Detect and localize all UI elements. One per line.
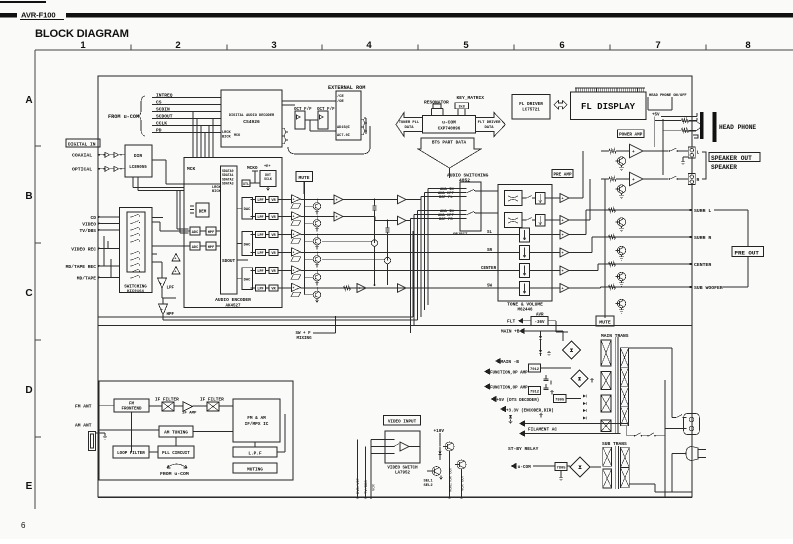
wire SW — [301, 287, 499, 289]
svg-text:KIC9164: KIC9164 — [127, 290, 144, 294]
svg-text:FILAMENT AC: FILAMENT AC — [528, 428, 557, 433]
op-amp post-dac 4 — [292, 248, 301, 256]
svg-text:SCDIN: SCDIN — [156, 107, 170, 113]
mute transistor 3 — [305, 240, 314, 242]
L.P.F block — [233, 447, 277, 457]
svg-text:SPEAKER OUT: SPEAKER OUT — [711, 155, 752, 162]
wire CENTER — [301, 270, 499, 272]
svg-text:+E+: +E+ — [264, 165, 270, 169]
svg-text:MUTING: MUTING — [247, 468, 263, 473]
terminal SUB WOOFER — [601, 286, 693, 288]
label +5V DTS — [491, 396, 497, 402]
svg-text:SCLK: SCLK — [264, 177, 272, 181]
svg-text:MONITOR OUT: MONITOR OUT — [450, 466, 454, 492]
tuner section box — [99, 381, 293, 480]
wire analog feed 1 — [176, 191, 178, 230]
wire lpf right — [277, 451, 285, 453]
svg-text:DIGITAL IN: DIGITAL IN — [68, 141, 96, 147]
svg-text:LOOP FILTER: LOOP FILTER — [117, 452, 145, 456]
switch+wire tone1 to vol — [522, 197, 526, 199]
main transformer secondary — [621, 348, 629, 368]
wire AC with double switch — [627, 435, 634, 437]
svg-text:+: + — [293, 214, 295, 218]
terminal CENTER — [598, 263, 692, 265]
svg-text:AVR-F100: AVR-F100 — [21, 11, 56, 20]
wire sw+f — [313, 332, 336, 334]
driver transistor terminal row 2 — [617, 272, 625, 280]
svg-text:SURR L: SURR L — [694, 208, 711, 214]
TONE & VOLUME block — [498, 185, 552, 302]
switch contact — [130, 216, 131, 217]
wire signal INTREQ — [152, 97, 221, 99]
svg-text:+: + — [562, 220, 564, 224]
svg-text:SW: SW — [487, 285, 493, 289]
svg-text:+5V (DTS DECODER): +5V (DTS DECODER) — [497, 398, 540, 403]
wire mix horizontal — [322, 240, 371, 242]
svg-text:+: + — [174, 258, 176, 262]
bridge rectifier 2 — [571, 370, 588, 387]
svg-text:TV/DBS: TV/DBS — [79, 228, 96, 234]
wire to LPF tri — [152, 261, 162, 263]
svg-text:CENTER: CENTER — [694, 262, 711, 268]
DIGITAL IN label — [66, 139, 100, 147]
DEM block — [196, 203, 209, 217]
svg-text:MAIN -B: MAIN -B — [501, 360, 520, 365]
svg-text:OPTICAL: OPTICAL — [72, 167, 92, 173]
filter symbol 5 — [291, 275, 301, 280]
vol boxes col — [520, 228, 530, 242]
svg-text:MUTE: MUTE — [599, 320, 611, 326]
wire headphone feed 2 — [663, 129, 681, 131]
regulator 7805 a — [554, 395, 567, 403]
svg-text:AM TUNING: AM TUNING — [164, 431, 188, 436]
svg-text:+: + — [293, 197, 295, 201]
wire amp to terminal SURR L — [569, 234, 586, 236]
wires DIR to encoder — [152, 159, 166, 161]
svg-text:VIDEO SWITCH: VIDEO SWITCH — [387, 467, 418, 471]
svg-text:+: + — [562, 234, 564, 238]
mute transistor 4 — [305, 258, 314, 260]
svg-text:u-COM: u-COM — [518, 465, 532, 470]
wire amp feeds vertical — [654, 121, 656, 148]
arrow FLT DRIVER DATA — [475, 113, 505, 137]
wire video left — [370, 440, 372, 498]
svg-text:7805: 7805 — [555, 399, 565, 403]
junction circle 2 — [384, 257, 390, 263]
ROM bus squiggle right — [361, 119, 367, 135]
wire am ant to tuning — [99, 429, 160, 431]
diode to sel — [439, 452, 442, 455]
svg-text:CENTER: CENTER — [481, 267, 497, 271]
svg-text:DAC: DAC — [244, 279, 252, 283]
svg-text:SDOUT: SDOUT — [222, 259, 236, 264]
svg-text:7805: 7805 — [556, 467, 566, 471]
svg-text:TONE & VOLUME: TONE & VOLUME — [507, 302, 543, 308]
svg-text:INTREQ: INTREQ — [156, 93, 173, 99]
svg-text:+: + — [293, 232, 295, 236]
svg-text:+: + — [562, 198, 564, 202]
LOOP FILTER — [113, 446, 149, 458]
svg-text:AK4527: AK4527 — [225, 305, 241, 309]
svg-text:1: 1 — [80, 40, 86, 51]
wire FL to power amp L — [569, 197, 583, 199]
wires input bypass left — [107, 241, 109, 249]
svg-text:FL DISPLAY: FL DISPLAY — [581, 102, 636, 112]
svg-text:HEAD PHONE ON/OFF: HEAD PHONE ON/OFF — [649, 93, 687, 98]
svg-text:6: 6 — [559, 40, 564, 51]
svg-text:VIDEO REC: VIDEO REC — [71, 246, 96, 252]
svg-text:FUNCTION,OP AMP: FUNCTION,OP AMP — [490, 387, 528, 391]
DAC 3 — [242, 268, 253, 290]
3.3v diode — [509, 415, 512, 418]
svg-text:PRE AMP: PRE AMP — [553, 173, 571, 178]
svg-text:SR: SR — [487, 249, 493, 253]
svg-text:+: + — [562, 252, 564, 256]
filter symbol 4 — [291, 257, 301, 262]
headphone jack bar 1 — [700, 112, 703, 139]
cap pair — [544, 375, 552, 385]
grid tick — [35, 339, 41, 341]
svg-text:TUNER PLL: TUNER PLL — [399, 121, 420, 125]
wire 4052 feed y210.5 — [418, 210, 467, 212]
svg-text:VIDEO INPUT: VIDEO INPUT — [388, 420, 417, 425]
svg-text:MAIN +B: MAIN +B — [501, 330, 520, 335]
svg-text:FLT: FLT — [507, 319, 516, 325]
grid tick — [417, 45, 419, 51]
SPEAKER OUT label — [709, 153, 760, 162]
FM FRONTEND — [114, 399, 149, 412]
wire encoder top row to 4052 top — [413, 230, 452, 232]
svg-text:FROM u-COM: FROM u-COM — [160, 471, 189, 477]
ADC 1 — [190, 227, 200, 235]
svg-text:M62446: M62446 — [517, 309, 533, 313]
wire 4052 feed y196.5 — [421, 196, 466, 198]
IF FILTER 1 — [162, 402, 174, 411]
terminal SURR L — [586, 209, 692, 211]
svg-text:DIR: DIR — [134, 153, 143, 159]
bridge rectifier main — [563, 341, 581, 359]
wires to power amps — [654, 117, 656, 146]
wire signal PD — [152, 132, 221, 134]
pre out bracket — [713, 210, 748, 287]
bias transistor R — [617, 185, 625, 193]
wire 4052 feed y188.5 — [428, 188, 466, 190]
amp SW a — [357, 284, 366, 293]
svg-text:VCR OUT: VCR OUT — [462, 474, 466, 491]
4052 switches — [467, 190, 474, 193]
video buffer transistor 2 — [457, 460, 466, 469]
out op-amp 5 — [560, 266, 569, 275]
svg-text:BICK: BICK — [212, 190, 221, 194]
regulator 7805 b — [555, 463, 567, 471]
main transformer primary windings — [601, 340, 611, 366]
IF AMP — [183, 402, 193, 412]
grid tick — [705, 45, 707, 51]
mute transistor 1 — [305, 205, 314, 207]
svg-text:DATA: DATA — [484, 126, 494, 130]
svg-text:/OE: /OE — [337, 99, 345, 104]
wires switching to encoder rows — [152, 217, 163, 219]
svg-text:E: E — [26, 481, 33, 492]
jack contacts — [682, 121, 700, 138]
svg-text:3: 3 — [271, 40, 276, 51]
driver transistor terminal row 0 — [617, 218, 625, 226]
sub trans core — [615, 446, 617, 489]
svg-text:CXP740096: CXP740096 — [438, 128, 461, 132]
svg-text:6: 6 — [21, 521, 26, 530]
bridge rectifier sub — [570, 457, 590, 477]
svg-text:SUB TRANS: SUB TRANS — [602, 441, 627, 447]
wire analog feed 2 — [179, 191, 181, 234]
svg-text:+: + — [562, 288, 564, 292]
svg-text:+: + — [562, 270, 564, 274]
wire headphone on/off — [647, 97, 649, 110]
svg-text:ST-BY RELAY: ST-BY RELAY — [508, 446, 539, 452]
svg-text:ADC: ADC — [192, 246, 199, 250]
diode quad — [583, 394, 586, 397]
svg-text:+: + — [632, 178, 635, 183]
header underline — [20, 19, 64, 21]
amp SW b — [398, 284, 407, 293]
svg-text:LC89055: LC89055 — [129, 166, 147, 170]
bottom power wires — [629, 483, 655, 485]
svg-text:FM ANT: FM ANT — [75, 404, 92, 410]
svg-text:DAC: DAC — [244, 208, 252, 212]
svg-text:FRONTEND: FRONTEND — [121, 408, 142, 412]
speaker switch R — [669, 178, 671, 180]
svg-text:/CE: /CE — [337, 94, 345, 99]
svg-text:FM: FM — [129, 403, 135, 407]
svg-text:DAC: DAC — [244, 243, 252, 247]
svg-text:LPF: LPF — [257, 234, 263, 238]
bottom terminals — [448, 496, 450, 498]
svg-text:+5V: +5V — [652, 114, 660, 118]
svg-text:MIXING: MIXING — [297, 337, 313, 341]
svg-text:LA7952: LA7952 — [395, 472, 411, 476]
wire amp to terminal SURR R — [569, 252, 592, 254]
vertical resistor node 2 — [386, 225, 390, 235]
resistor W R — [609, 177, 616, 181]
svg-text:PRE OUT: PRE OUT — [735, 250, 760, 257]
svg-text:LRCK: LRCK — [222, 131, 231, 135]
header top rule fragment — [0, 1, 46, 3]
7805b cap+gnd — [560, 471, 562, 477]
svg-text:IF/MPX IC: IF/MPX IC — [245, 422, 269, 427]
ground near connector — [681, 160, 685, 165]
wire lpf-hpf chain — [161, 288, 163, 298]
svg-text:FUNCTION,OP AMP: FUNCTION,OP AMP — [490, 372, 528, 376]
svg-text:RESONATOR: RESONATOR — [424, 100, 449, 106]
out op-amp 2 — [560, 216, 569, 225]
PRE OUT label — [732, 247, 764, 257]
long wire bus 2 — [98, 325, 692, 327]
wire bus drops to MCK — [192, 112, 194, 158]
svg-text:7912: 7912 — [530, 391, 540, 395]
wire secondary bottom — [626, 426, 628, 436]
main out bus vertical — [604, 180, 606, 319]
op-amp post-dac 1 — [292, 195, 301, 203]
wires to 4052 — [406, 199, 421, 201]
switch contact — [130, 277, 131, 278]
svg-text:MD/TAPE REC: MD/TAPE REC — [66, 264, 97, 270]
LPF/VR row 6 — [256, 285, 266, 291]
wire right vertical B — [664, 380, 666, 497]
amp FR a — [334, 212, 343, 221]
svg-text:VCR: VCR — [373, 483, 377, 491]
svg-text:SURR R: SURR R — [694, 235, 711, 241]
svg-text:FROM u-COM: FROM u-COM — [108, 114, 139, 120]
PLL CIRCUIT — [158, 446, 194, 458]
bottom bus wire — [98, 497, 692, 499]
svg-text:AM ANT: AM ANT — [75, 423, 92, 429]
amp FL a — [334, 195, 343, 204]
wires to ADCs — [184, 230, 190, 232]
video sw internals — [400, 442, 409, 451]
wire SL — [301, 234, 499, 236]
junction circle 1 — [371, 240, 377, 246]
svg-text:LPF: LPF — [167, 287, 175, 291]
grid tick — [35, 145, 41, 147]
svg-text:SWITCHING: SWITCHING — [124, 286, 147, 290]
label FUNCTION OP AMP b — [484, 383, 490, 389]
svg-text:R: R — [697, 177, 700, 183]
wire headphone feed 1 — [655, 120, 681, 122]
switch contact — [130, 259, 131, 260]
wire signal CS — [152, 104, 221, 106]
mute control bus — [304, 182, 306, 295]
svg-text:HEAD PHONE: HEAD PHONE — [719, 124, 756, 131]
regulator 7912 b — [529, 387, 541, 395]
mute transistor 5 — [305, 276, 314, 278]
grid tick — [35, 242, 41, 244]
grid tick — [35, 436, 41, 438]
mute transistor 6 — [305, 294, 314, 296]
video buffer transistor 1 — [445, 442, 454, 451]
resistor W terminal row 1 — [609, 235, 616, 239]
wire frontend down — [131, 412, 133, 452]
wires into 4052 — [452, 188, 466, 190]
ADC 2 — [190, 242, 200, 250]
svg-text:KEY_MATRIX: KEY_MATRIX — [457, 95, 485, 101]
label FILAMENT AC — [519, 420, 525, 426]
video bottom verticals — [357, 440, 359, 498]
svg-text:DATA: DATA — [404, 126, 414, 130]
svg-text:+: + — [359, 288, 361, 292]
op-amp tri 1 — [172, 254, 180, 262]
LPF/VR row 5 — [256, 268, 266, 274]
svg-text:PD: PD — [156, 128, 162, 134]
mute transistor 2 — [305, 222, 314, 224]
out op-amp 4 — [560, 248, 569, 257]
svg-text:+: + — [293, 250, 295, 254]
sel transistor — [432, 467, 441, 476]
wire amp to terminal CENTER — [569, 270, 598, 272]
grid tick — [513, 45, 515, 51]
switch contact — [130, 271, 131, 272]
grid tick — [609, 45, 611, 51]
svg-text:+3.3V (ENCODER,DIR): +3.3V (ENCODER,DIR) — [506, 409, 554, 414]
switch contact — [130, 235, 131, 236]
svg-text:BTS PART DATA: BTS PART DATA — [432, 141, 467, 146]
wire flt down — [548, 320, 556, 322]
wire SDOUT — [237, 259, 248, 261]
svg-text:C: C — [25, 288, 32, 299]
wires col vol outs — [498, 234, 520, 236]
AM antenna loop — [89, 432, 96, 451]
video in wires — [371, 439, 394, 441]
sub transformer secondary — [621, 447, 630, 467]
svg-text:MD/TAPE: MD/TAPE — [77, 275, 97, 281]
svg-text:CD: CD — [90, 215, 96, 221]
speaker switch L — [669, 150, 671, 152]
sub transformer primary — [603, 447, 612, 466]
FL DRIVER LC75721 — [512, 95, 550, 120]
wire FR to power amp R — [569, 219, 590, 221]
label FUNCTION OP AMP a — [484, 368, 490, 374]
EXTERNAL ROM block — [336, 91, 361, 140]
wire bus vertical right — [691, 326, 693, 498]
DAC 1 — [242, 197, 253, 219]
wire 4052 feed y218.5 — [411, 218, 467, 220]
svg-text:SL: SL — [487, 231, 493, 235]
op-amp post-dac 5 — [292, 266, 301, 274]
out op-amp 1 — [560, 194, 569, 203]
regulator 7912 a — [529, 364, 541, 372]
tone box 2 — [505, 213, 523, 228]
svg-text:L: L — [697, 150, 700, 156]
bias transistor L — [617, 157, 625, 165]
svg-text:HPF: HPF — [167, 313, 175, 317]
vertical resistor node 1 — [373, 203, 377, 213]
wire plug to bus — [672, 453, 686, 455]
svg-text:PLL CIRCUIT: PLL CIRCUIT — [162, 452, 190, 456]
svg-text:-36V: -36V — [534, 321, 545, 325]
svg-text:DVD/VIP: DVD/VIP — [356, 477, 361, 494]
LPF/VR row 3 — [256, 232, 266, 238]
svg-text:IF AMP: IF AMP — [182, 412, 197, 416]
IF FILTER 2 — [207, 402, 219, 411]
HPF triangle — [159, 304, 168, 315]
wire 4052 feed y214.5 — [414, 214, 466, 216]
out op-amp 3 — [560, 230, 569, 239]
HPF 2 — [206, 242, 216, 250]
svg-text:LPF: LPF — [257, 270, 263, 274]
svg-text:ADC: ADC — [192, 231, 199, 235]
svg-text:DEM: DEM — [199, 211, 207, 215]
svg-text:2: 2 — [175, 40, 180, 51]
resistor W terminal row 0 — [609, 208, 616, 212]
HPF 1 — [206, 227, 216, 235]
svg-text:AUDIO ENCODER: AUDIO ENCODER — [215, 297, 251, 303]
switch contact — [130, 265, 131, 266]
wire FR row — [301, 216, 335, 218]
svg-text:LPF: LPF — [257, 199, 263, 203]
wire amp to terminal SUB WOOFER — [569, 287, 601, 289]
u-COM CXP740096 — [423, 115, 476, 133]
svg-text:BLOCK DIAGRAM: BLOCK DIAGRAM — [35, 28, 129, 40]
LPF/VR row 2 — [256, 214, 266, 220]
svg-text:+: + — [336, 199, 338, 203]
filter symbol 1 — [291, 204, 301, 209]
LPF triangle — [158, 278, 167, 288]
wire outlet top with switch — [672, 417, 675, 419]
wire sw block out rows — [152, 253, 157, 255]
wires bridge2 — [541, 367, 572, 369]
audio switching block — [460, 182, 481, 231]
FL DISPLAY — [571, 92, 646, 119]
svg-text:SCDOUT: SCDOUT — [156, 114, 173, 120]
double arrow — [554, 101, 567, 110]
